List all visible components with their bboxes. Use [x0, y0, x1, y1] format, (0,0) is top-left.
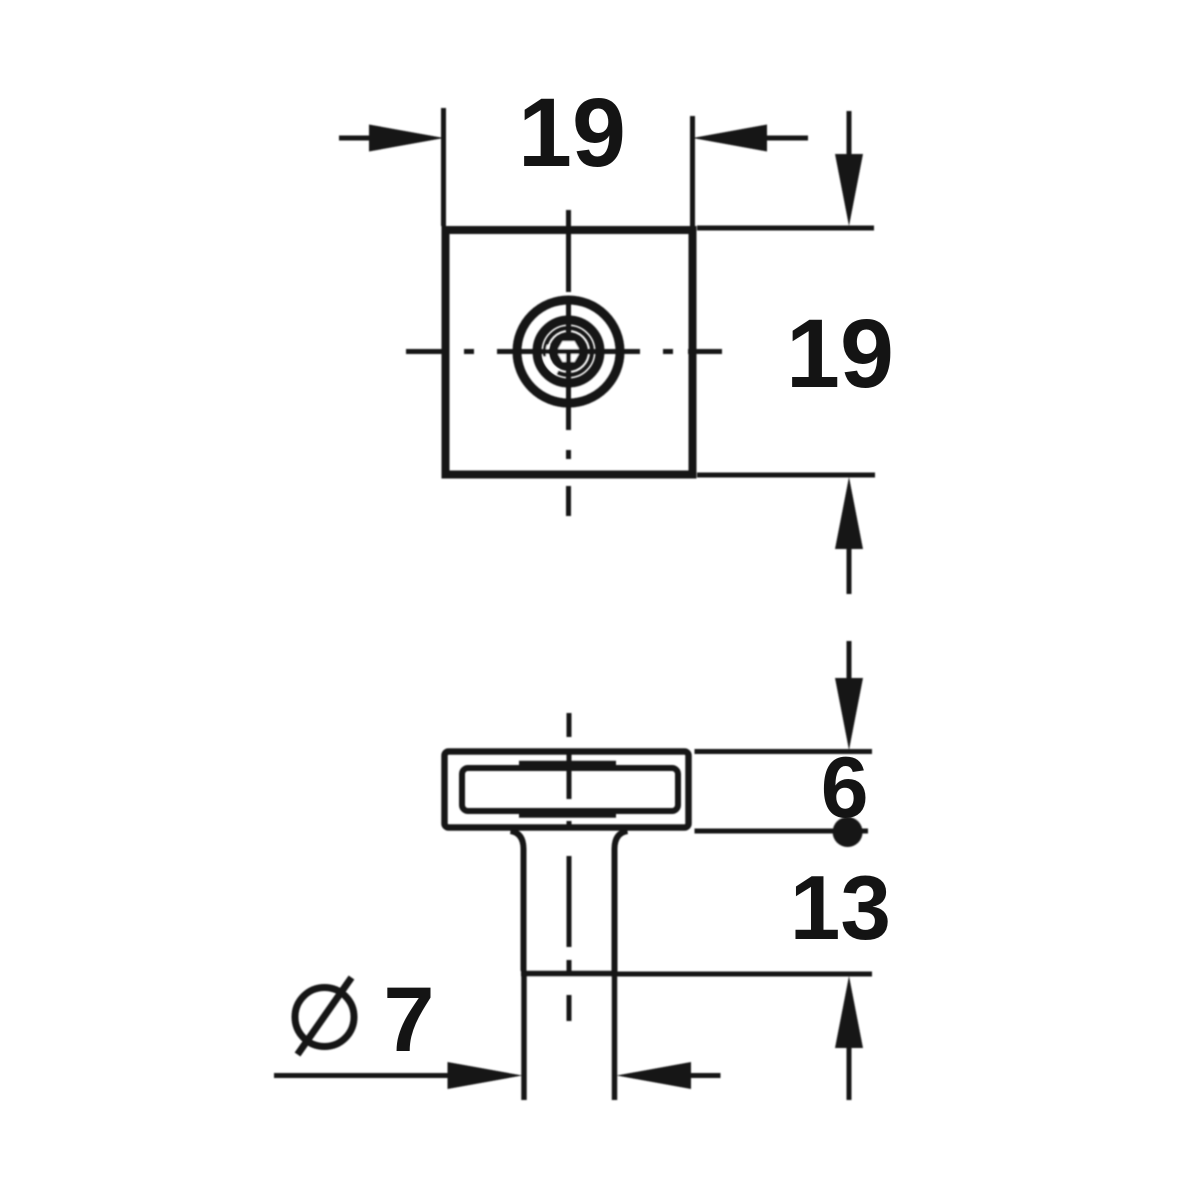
dim 19 right: upper arrow (down) — [847, 111, 852, 158]
dim diameter 7: right arrow — [617, 1062, 692, 1089]
dim diameter 7: circle of diameter symbol — [295, 988, 354, 1047]
dim 19 top: left extension line — [441, 108, 446, 226]
dim diameter 7: slash of diameter symbol — [298, 978, 352, 1055]
side view: neck right edge with fillet — [615, 831, 628, 971]
side view: neck left edge with fillet — [511, 831, 524, 971]
side view: insert raised top segment — [519, 761, 616, 768]
side view vertical centerline — [567, 713, 572, 1021]
svg-text:19: 19 — [786, 299, 894, 408]
thread relief arc (white) — [547, 345, 551, 364]
side view: lower stem right edge — [612, 974, 618, 1101]
hex socket — [555, 339, 583, 363]
svg-text:13: 13 — [790, 858, 891, 959]
hole: inner dark zone — [549, 332, 588, 371]
svg-text:7: 7 — [383, 969, 434, 1071]
top view horizontal centerline — [406, 349, 722, 354]
side view: shoulder line — [521, 971, 618, 977]
top view: square body outline — [446, 230, 693, 475]
dim 19 right: top extension line — [697, 226, 874, 231]
svg-text:19: 19 — [518, 78, 626, 187]
hole: outer ring — [517, 300, 620, 403]
dim 19 right: bottom extension line — [697, 473, 875, 478]
thread circle break — [546, 356, 558, 372]
svg-text:6: 6 — [821, 740, 869, 836]
side view: shoulder extension line — [618, 972, 873, 977]
side view: head bottom extension line — [695, 829, 869, 834]
side view: insert raised bottom segment — [519, 811, 616, 818]
side view: head inner rect — [462, 768, 678, 811]
dim 6: upper arrow (down) — [847, 641, 852, 680]
side view: lower stem left edge — [521, 974, 527, 1101]
side view: head top extension line — [695, 749, 873, 754]
hole: second ring — [537, 320, 600, 383]
side view: head outer rect — [445, 752, 689, 828]
dim 19 top: right arrow — [764, 136, 808, 141]
hole: thin thread circle — [545, 328, 592, 375]
dim 6 / 13: dot terminator — [833, 817, 863, 847]
dim 13: lower arrow (up) — [835, 976, 863, 1048]
dim 19 right: lower arrow (up) — [835, 477, 863, 549]
dim 19 top: right extension line — [690, 116, 695, 226]
dim diameter 7: left arrow — [274, 1073, 452, 1078]
dim 19 top: left arrow — [339, 136, 372, 141]
top view vertical centerline — [566, 210, 571, 516]
